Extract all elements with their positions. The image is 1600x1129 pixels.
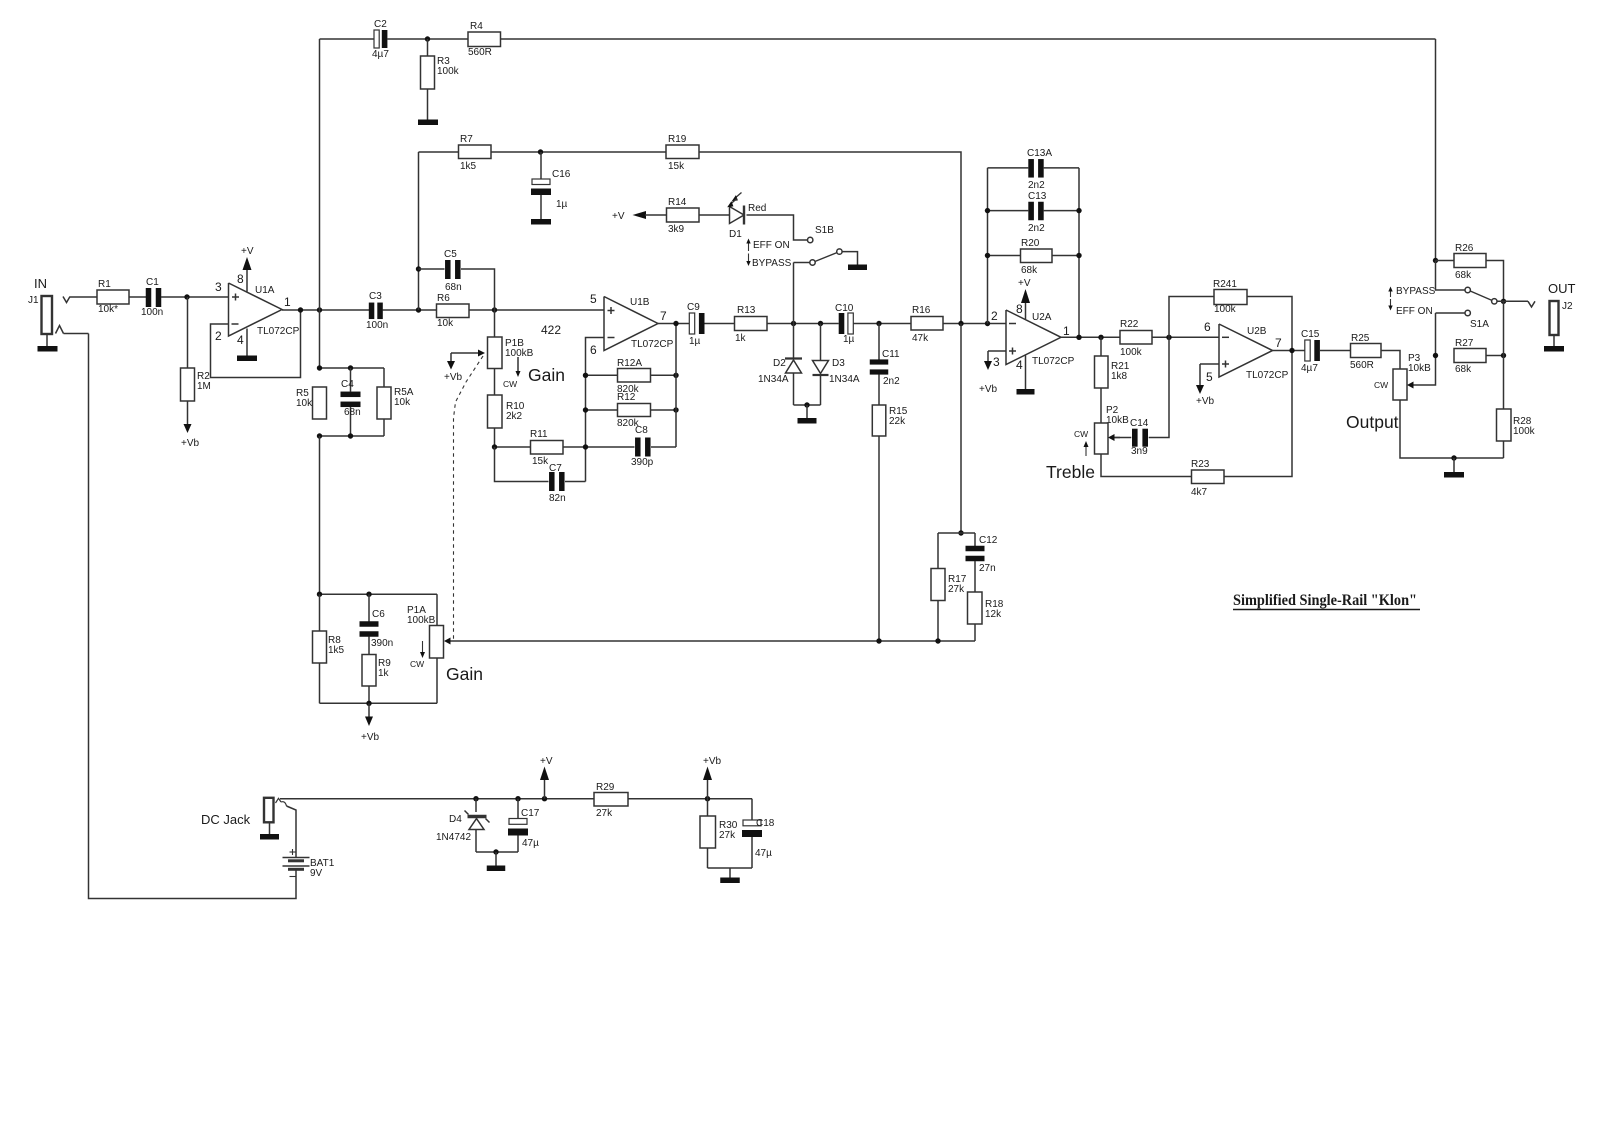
- wire R5A stubs: [383, 368, 385, 387]
- svg-text:R25: R25: [1351, 333, 1370, 344]
- wire down to R2: [187, 297, 189, 368]
- svg-text:D2: D2: [773, 358, 786, 369]
- svg-text:7: 7: [1275, 336, 1282, 350]
- wire R5 group top: [320, 367, 385, 369]
- svg-text:15k: 15k: [532, 456, 549, 467]
- svg-text:47µ: 47µ: [755, 848, 772, 859]
- DC jack switch contact: [276, 798, 282, 803]
- resistor R8: [313, 631, 327, 663]
- svg-text:68k: 68k: [1455, 364, 1472, 375]
- +Vb arrow below R2: [184, 424, 192, 433]
- resistor R16: [911, 317, 943, 331]
- resistor R17: [931, 569, 945, 601]
- wire R20 line: [988, 255, 1021, 257]
- svg-text:4µ7: 4µ7: [372, 49, 389, 60]
- wire R6 to U1B pin5: [469, 309, 604, 311]
- wire gain wiper long line: [448, 640, 975, 642]
- capacitor C14: [1132, 429, 1138, 447]
- svg-text:U1B: U1B: [630, 297, 650, 308]
- svg-text:U2A: U2A: [1032, 312, 1052, 323]
- wire R241 right leg: [1247, 297, 1292, 351]
- svg-text:R27: R27: [1455, 338, 1474, 349]
- svg-text:6: 6: [590, 343, 597, 357]
- C13 block left bus: [987, 168, 989, 324]
- svg-text:2n2: 2n2: [883, 376, 900, 387]
- potentiometer P1B: [488, 337, 503, 369]
- svg-text:J1: J1: [28, 295, 39, 306]
- jack J1 (IN): [42, 296, 53, 334]
- wire bus down to gain box: [319, 436, 321, 594]
- node R20 left: [985, 253, 990, 258]
- ground at U1A pin4: [237, 356, 257, 362]
- svg-text:+Vb: +Vb: [1196, 396, 1215, 407]
- wire bus U1A output up to C2 line: [319, 39, 321, 310]
- node R6 right: [492, 307, 497, 312]
- ground at DC jack: [260, 834, 279, 840]
- svg-text:C18: C18: [756, 818, 775, 829]
- wire +V to R14: [645, 214, 667, 216]
- wire gain box top: [320, 593, 438, 595]
- svg-text:R16: R16: [912, 305, 931, 316]
- op-amp U1A: [229, 283, 283, 336]
- resistor R10: [488, 395, 503, 428]
- svg-text:C14: C14: [1130, 418, 1149, 429]
- svg-text:47k: 47k: [912, 333, 929, 344]
- P3 wiper arrow: [1407, 382, 1414, 389]
- capacitor C5: [445, 260, 451, 279]
- svg-text:Treble: Treble: [1046, 462, 1095, 482]
- S1A down arrow: [1390, 299, 1392, 306]
- wire S1B pole to ground: [842, 252, 857, 265]
- svg-text:68n: 68n: [445, 282, 462, 293]
- U1A pin4 ground stub: [246, 329, 248, 356]
- wire R30 top stub: [707, 799, 709, 816]
- svg-text:1µ: 1µ: [556, 199, 568, 210]
- wire C5 left: [419, 268, 445, 270]
- wire P1B to R10: [494, 369, 496, 396]
- wire R10 to R11 line: [494, 428, 496, 447]
- resistor R3: [421, 56, 435, 89]
- capacitor C15: [1305, 340, 1310, 361]
- wire R5 group bottom: [320, 435, 385, 437]
- capacitor C6: [368, 594, 370, 621]
- svg-text:+Vb: +Vb: [361, 732, 380, 743]
- node R21 top: [1098, 335, 1103, 340]
- node C1/R2 junction: [184, 294, 189, 299]
- wire C18 drop: [751, 799, 753, 820]
- resistor R7: [459, 145, 492, 159]
- wire bus to P1B: [494, 310, 496, 337]
- node C12 net top: [958, 530, 963, 535]
- svg-text:+V: +V: [612, 211, 625, 222]
- svg-text:1N4742: 1N4742: [436, 832, 471, 843]
- S1B lower contact: [810, 260, 815, 265]
- wire C12 to R18: [974, 561, 976, 592]
- wire R16 to U2A pin2: [943, 323, 1006, 325]
- svg-text:10k: 10k: [394, 397, 411, 408]
- ground at J2: [1544, 346, 1564, 352]
- resistor R29: [594, 793, 628, 807]
- wire P2 wiper to C14: [1115, 437, 1132, 439]
- svg-text:390p: 390p: [631, 457, 654, 468]
- svg-text:10k: 10k: [296, 398, 313, 409]
- svg-text:C2: C2: [374, 19, 387, 30]
- +V arrow above U1A: [243, 257, 252, 270]
- svg-text:27k: 27k: [719, 830, 736, 841]
- ground below D4: [487, 866, 506, 872]
- svg-text:+Vb: +Vb: [181, 438, 200, 449]
- resistor R19: [666, 145, 699, 159]
- svg-text:CW: CW: [503, 379, 517, 389]
- wire R25 to P3: [1381, 351, 1400, 370]
- svg-text:Gain: Gain: [528, 365, 565, 385]
- wire R3 stub: [427, 39, 429, 56]
- wire D4 C17 common: [476, 851, 518, 853]
- node gain box bottom: [366, 701, 371, 706]
- P1B wiper arrow: [451, 352, 478, 354]
- svg-text:BYPASS: BYPASS: [752, 258, 792, 269]
- svg-text:U1A: U1A: [255, 285, 275, 296]
- wire R9 bottom: [368, 686, 370, 703]
- resistor R9: [362, 655, 376, 687]
- ground at S1B: [848, 265, 867, 271]
- node R12 left: [583, 407, 588, 412]
- svg-text:4k7: 4k7: [1191, 487, 1208, 498]
- wire R19 right and down: [699, 152, 961, 324]
- svg-text:560R: 560R: [468, 47, 492, 58]
- resistor R6: [437, 304, 470, 318]
- node R10/R11/C7: [492, 444, 497, 449]
- wire R26 left: [1436, 260, 1455, 262]
- wire to diode ground: [806, 405, 808, 418]
- wire R12 right: [651, 409, 677, 411]
- svg-text:1N34A: 1N34A: [829, 374, 860, 385]
- wire C3 to R6: [383, 309, 437, 311]
- diode D2 (1N34A): [793, 324, 795, 359]
- svg-text:U2B: U2B: [1247, 326, 1267, 337]
- svg-text:R7: R7: [460, 134, 473, 145]
- node gain box top left: [317, 592, 322, 597]
- resistor R5: [313, 387, 327, 419]
- node U2A out bus: [1076, 335, 1081, 340]
- svg-text:8: 8: [1016, 302, 1023, 316]
- wire R8 bottom: [319, 663, 321, 703]
- potentiometer P3 (Output): [1393, 369, 1407, 400]
- svg-text:2: 2: [215, 329, 222, 343]
- svg-text:R19: R19: [668, 134, 687, 145]
- svg-text:R29: R29: [596, 782, 615, 793]
- wire effon leg: [1436, 312, 1465, 314]
- svg-text:C6: C6: [372, 609, 385, 620]
- svg-text:R241: R241: [1213, 279, 1237, 290]
- resistor R27: [1454, 349, 1486, 363]
- wire R17 to wiper line: [937, 601, 939, 642]
- svg-text:C12: C12: [979, 535, 998, 546]
- svg-text:68k: 68k: [1021, 265, 1038, 276]
- wire R30 C18 bottom: [707, 848, 709, 868]
- resistor R5A: [377, 387, 391, 419]
- capacitor C3: [369, 303, 375, 320]
- wire S1A pole to jack: [1497, 300, 1528, 302]
- ground at P3 bottom: [1444, 472, 1464, 478]
- svg-text:R14: R14: [668, 197, 687, 208]
- capacitor C1: [146, 288, 152, 307]
- svg-text:R4: R4: [470, 21, 483, 32]
- svg-text:TL072CP: TL072CP: [257, 326, 300, 337]
- svg-text:9V: 9V: [310, 868, 323, 879]
- node C13 right: [1076, 208, 1081, 213]
- resistor R23: [1192, 470, 1225, 484]
- svg-text:C7: C7: [549, 463, 562, 474]
- U1A feedback wire pin2 to output: [211, 310, 301, 378]
- wire to R30 ground: [729, 868, 731, 878]
- svg-text:1k: 1k: [378, 668, 390, 679]
- svg-text:68n: 68n: [344, 407, 361, 418]
- svg-text:3: 3: [215, 280, 222, 294]
- wire C7 right: [565, 481, 586, 483]
- node S1A pole junction: [1501, 299, 1506, 304]
- node +V tap: [542, 796, 547, 801]
- wire bypass leg: [1436, 261, 1465, 291]
- svg-text:15k: 15k: [668, 161, 685, 172]
- svg-text:EFF ON: EFF ON: [753, 240, 790, 251]
- ground below C16: [531, 219, 551, 225]
- wire R27 right: [1486, 355, 1504, 357]
- resistor R13: [735, 317, 768, 331]
- EFF ON up arrow: [748, 244, 750, 252]
- node C6 top: [366, 592, 371, 597]
- svg-text:68k: 68k: [1455, 270, 1472, 281]
- capacitor C7: [549, 472, 555, 491]
- wire battery bottom return: [89, 334, 297, 899]
- wire C10 to R16: [854, 323, 912, 325]
- capacitor C17 (47u): [517, 799, 519, 819]
- +V arrow left of R14: [633, 211, 647, 219]
- op-amp U2B: [1219, 324, 1273, 377]
- wire R241 left leg: [1169, 297, 1214, 338]
- node D4 ground: [493, 849, 498, 854]
- wire to D4 ground: [495, 852, 497, 866]
- svg-text:S1B: S1B: [815, 225, 834, 236]
- +Vb arrow bottom: [707, 780, 709, 799]
- zener diode D4 (1N4742): [475, 799, 477, 812]
- wire C7 branch: [495, 447, 549, 482]
- +V arrow bottom: [544, 780, 546, 799]
- svg-text:1k: 1k: [735, 333, 747, 344]
- +V arrow above U2A: [1021, 289, 1030, 303]
- op-amp U2A: [1006, 310, 1061, 365]
- capacitor C16: [540, 152, 542, 179]
- wire DC jack to battery: [287, 806, 297, 858]
- capacitor C18 (47u): [743, 820, 761, 826]
- wire U1B out to C9: [658, 323, 689, 325]
- wire bus down to R5 group: [319, 310, 321, 368]
- svg-text:22k: 22k: [889, 416, 906, 427]
- node D2/D3 ground: [804, 402, 809, 407]
- wire R2 to +Vb arrow: [187, 401, 189, 424]
- node output ground: [1451, 455, 1456, 460]
- svg-text:12k: 12k: [985, 609, 1002, 620]
- svg-text:R22: R22: [1120, 319, 1139, 330]
- DC jack: [264, 798, 274, 823]
- node C13 left: [985, 208, 990, 213]
- wire gain box bottom: [320, 702, 438, 704]
- svg-text:IN: IN: [34, 276, 47, 291]
- wire U2B output: [1273, 350, 1306, 352]
- node R26 left: [1433, 258, 1438, 263]
- svg-text:Gain: Gain: [446, 664, 483, 684]
- svg-text:C4: C4: [341, 379, 354, 390]
- svg-text:R11: R11: [530, 429, 548, 440]
- BYPASS down arrow: [748, 254, 750, 262]
- wire C1 to U1A pin3: [161, 296, 229, 298]
- S1A pole arm: [1470, 291, 1492, 300]
- C13 block right bus: [1078, 168, 1080, 337]
- svg-text:2k2: 2k2: [506, 411, 523, 422]
- node R5 top: [317, 365, 322, 370]
- wire C14 right up to R22 node: [1149, 337, 1169, 437]
- svg-text:+V: +V: [241, 246, 254, 257]
- svg-text:+Vb: +Vb: [979, 384, 998, 395]
- jack J1 ring contact: [56, 326, 64, 334]
- svg-text:100k: 100k: [1120, 347, 1143, 358]
- wire top line at C2: [320, 38, 375, 40]
- svg-text:8: 8: [237, 272, 244, 286]
- node R5 bottom: [317, 433, 322, 438]
- CW arrow at P1B: [517, 357, 519, 371]
- wire input from jack J1 to R1: [63, 297, 70, 303]
- svg-text:D4: D4: [449, 814, 462, 825]
- wire R23 to U2B out bus: [1224, 351, 1292, 477]
- wire R22 to U2B: [1152, 336, 1219, 338]
- svg-text:4: 4: [1016, 358, 1023, 372]
- svg-text:C15: C15: [1301, 329, 1320, 340]
- CW down arrow P1A: [422, 641, 424, 652]
- capacitor C2: [374, 30, 379, 48]
- node R15 bottom: [876, 638, 881, 643]
- node U2B output: [1289, 348, 1294, 353]
- svg-text:R23: R23: [1191, 459, 1210, 470]
- svg-text:TL072CP: TL072CP: [631, 339, 674, 350]
- node C11 branch: [876, 321, 881, 326]
- wire C9 to R13: [705, 323, 735, 325]
- node R20 right: [1076, 253, 1081, 258]
- svg-text:R12A: R12A: [617, 358, 642, 369]
- potentiometer P1A: [430, 626, 444, 659]
- svg-text:TL072CP: TL072CP: [1246, 370, 1289, 381]
- svg-text:C11: C11: [882, 349, 900, 360]
- wire U1A output: [282, 309, 369, 311]
- svg-text:C10: C10: [835, 303, 854, 314]
- S1B upper contact: [808, 237, 813, 242]
- wire C13A line: [988, 167, 1029, 169]
- node R19 bus on main line: [958, 321, 963, 326]
- svg-text:C9: C9: [687, 302, 700, 313]
- svg-text:6: 6: [1204, 320, 1211, 334]
- S1A effon contact: [1465, 310, 1470, 315]
- svg-text:3n9: 3n9: [1131, 446, 1148, 457]
- svg-text:1k5: 1k5: [328, 645, 345, 656]
- wire R12A left: [586, 374, 618, 376]
- ground below R3: [418, 120, 438, 126]
- node C4 bottom: [348, 433, 353, 438]
- node C4 top: [348, 365, 353, 370]
- wire R12 left: [586, 409, 618, 411]
- svg-text:1k5: 1k5: [460, 161, 477, 172]
- svg-text:CW: CW: [1374, 380, 1388, 390]
- resistor R25: [1351, 344, 1382, 358]
- wire R14 to D1: [699, 214, 730, 216]
- wire R15 to wiper line: [878, 436, 880, 641]
- svg-text:C1: C1: [146, 277, 159, 288]
- wire C13 line: [988, 210, 1029, 212]
- LED D1: [730, 207, 745, 224]
- svg-text:10k*: 10k*: [98, 304, 118, 315]
- svg-text:27k: 27k: [596, 808, 613, 819]
- capacitor C8: [635, 438, 641, 457]
- wire right bus down to R26: [1435, 39, 1437, 261]
- node R7/C16/R19: [538, 149, 543, 154]
- svg-text:C13: C13: [1028, 191, 1047, 202]
- svg-text:422: 422: [541, 323, 561, 337]
- ground at J1: [38, 346, 58, 352]
- wire R12A right: [651, 374, 677, 376]
- node output bus: [317, 307, 322, 312]
- capacitor C12: [966, 546, 985, 552]
- node R22/R241/C14: [1166, 335, 1171, 340]
- svg-text:3: 3: [993, 355, 1000, 369]
- node D4 tap: [473, 796, 478, 801]
- svg-text:D3: D3: [832, 358, 845, 369]
- wire D1 to S1B: [747, 215, 808, 240]
- svg-text:10kB: 10kB: [1106, 415, 1129, 426]
- svg-text:Output: Output: [1346, 412, 1399, 432]
- svg-text:D1: D1: [729, 229, 742, 240]
- svg-text:TL072CP: TL072CP: [1032, 356, 1075, 367]
- svg-text:2: 2: [991, 309, 998, 323]
- node C13 bus on main line: [985, 321, 990, 326]
- svg-text:Red: Red: [748, 203, 766, 214]
- wire U1B output bus: [675, 324, 677, 448]
- svg-text:C16: C16: [552, 169, 571, 180]
- S1A pole contact: [1492, 299, 1497, 304]
- wire out bus R27 to R28: [1503, 301, 1505, 409]
- svg-text:100n: 100n: [366, 320, 388, 331]
- svg-text:1µ: 1µ: [843, 334, 855, 345]
- svg-text:2n2: 2n2: [1028, 223, 1045, 234]
- wire P3 bottom: [1400, 400, 1504, 458]
- S1A bypass contact: [1465, 287, 1470, 292]
- wire to output ground: [1453, 458, 1455, 472]
- node C5 left: [416, 266, 421, 271]
- svg-text:820k: 820k: [617, 418, 640, 429]
- wire C12 net: [938, 532, 975, 534]
- wire gain box right top: [436, 594, 438, 625]
- +Vb stub at P1B wiper: [450, 353, 452, 361]
- node R12 right: [673, 407, 678, 412]
- svg-text:R12: R12: [617, 392, 636, 403]
- svg-text:100k: 100k: [1513, 426, 1536, 437]
- resistor R241: [1214, 290, 1247, 305]
- wire S1B lower to main line: [794, 262, 810, 264]
- resistor R26: [1454, 254, 1486, 268]
- node R17 bottom: [935, 638, 940, 643]
- svg-text:R26: R26: [1455, 243, 1474, 254]
- S1B pole arm: [815, 253, 837, 262]
- wire R29 to R30 C18: [628, 798, 752, 800]
- resistor R4: [468, 32, 501, 47]
- svg-text:BYPASS: BYPASS: [1396, 286, 1436, 297]
